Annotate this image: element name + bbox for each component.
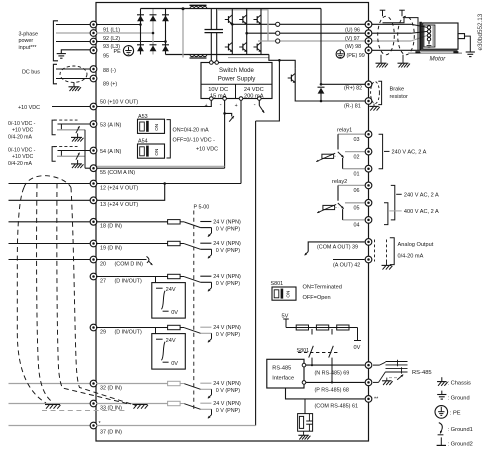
analog out bracket [390, 238, 394, 265]
drive enclosure outline [96, 3, 369, 442]
DC link capacitor C1 lead B [216, 9, 218, 30]
svg-text:24V: 24V [166, 338, 176, 344]
svg-text:Motor: Motor [430, 56, 447, 63]
wire 33 external (gray) [9, 403, 94, 405]
svg-text:50 (+10 V OUT): 50 (+10 V OUT) [100, 100, 138, 106]
NPN/PNP select dashed link [193, 211, 195, 412]
SMPS divider [201, 83, 272, 85]
shield drain wire [383, 18, 419, 51]
relay1 contact [338, 133, 365, 135]
svg-text:0/4-20 mA: 0/4-20 mA [398, 254, 424, 260]
svg-text:(COM D IN): (COM D IN) [115, 261, 144, 267]
digital input 19 resistor+switch [96, 243, 168, 245]
svg-text:(N RS-485) 69: (N RS-485) 69 [315, 370, 350, 376]
terminal 06 [365, 182, 372, 189]
wire L1 to rectifier [96, 24, 141, 26]
wire 55 COM A IN [96, 167, 225, 169]
IGBT Q4 bottom [225, 46, 229, 48]
svg-text:relay1: relay1 [337, 128, 352, 134]
wire 37 internal (gray) [96, 425, 256, 427]
control cable shield dome [24, 176, 71, 188]
terminal 19 [90, 240, 97, 247]
wire +24V rail [240, 100, 242, 183]
terminal 89 [90, 75, 97, 82]
wire PE to motor [369, 49, 420, 51]
wire U to motor [369, 23, 412, 25]
terminal 18 [90, 218, 97, 225]
terminal 32 [90, 380, 97, 387]
svg-text:0/-10 VDC -: 0/-10 VDC - [8, 121, 36, 127]
SMPS input pin A [210, 61, 214, 65]
terminal 05 [365, 199, 372, 206]
svg-text:S801: S801 [297, 348, 310, 354]
wire pot commons to 55 [84, 130, 86, 168]
DC bus bracket [53, 64, 57, 84]
svg-text:0/-10 VDC -: 0/-10 VDC - [8, 147, 36, 153]
ground control shield 2 [133, 404, 148, 406]
terminal 96 [365, 21, 372, 28]
svg-text:05: 05 [354, 206, 360, 212]
motor pin V [427, 30, 430, 33]
RS485 pair upper [373, 364, 380, 366]
motor box [423, 23, 458, 49]
SMPS pin -10V [223, 97, 227, 101]
ground input PE [57, 53, 66, 55]
terminal 55 [90, 165, 97, 172]
junction L3-col3 [164, 40, 167, 43]
RC drop wire [304, 399, 306, 414]
termination resistor R3 [337, 325, 349, 330]
svg-text:18 (D IN): 18 (D IN) [100, 224, 122, 230]
svg-text:Brake: Brake [390, 87, 405, 93]
digital input 29 resistor+switch [96, 327, 168, 329]
wire L3 to rectifier [96, 41, 166, 43]
svg-text:04: 04 [354, 223, 360, 229]
svg-text:01: 01 [354, 172, 360, 178]
svg-text:0/4-20 mA: 0/4-20 mA [8, 135, 32, 141]
svg-text:400 V AC, 2 A: 400 V AC, 2 A [404, 209, 439, 215]
terminal 27 [90, 273, 97, 280]
rectifier column L3 wire [165, 9, 167, 55]
terminal 20 [90, 256, 97, 263]
IGBT Q1 top [225, 19, 229, 21]
wire PE input [61, 50, 93, 54]
termination resistor R1 [296, 325, 308, 330]
terminal 42 [365, 256, 372, 263]
svg-text:ON: ON [286, 291, 291, 298]
svg-text:e30bd552.13: e30bd552.13 [477, 13, 484, 50]
wire 13 external [9, 199, 94, 201]
junction brake diode anode [320, 100, 323, 103]
S801 gang dashed link [298, 352, 338, 354]
svg-text:: PE: : PE [450, 410, 461, 416]
RS485 shield hook [397, 375, 403, 380]
svg-text:PE: PE [114, 49, 122, 55]
svg-text:-: - [254, 102, 256, 108]
shield tick 2 [399, 9, 405, 11]
wire 37 external (gray) [9, 425, 94, 427]
relay1 bracket [379, 134, 383, 169]
svg-text:37 (D IN): 37 (D IN) [100, 429, 122, 435]
SMPS pin +10V [210, 97, 214, 101]
svg-text:OFF=0/-10 VDC -: OFF=0/-10 VDC - [173, 137, 216, 143]
svg-text:0 V (PNP): 0 V (PNP) [216, 226, 240, 232]
wire U phase [232, 23, 368, 25]
ground motor shield 1 [380, 55, 382, 63]
svg-text:0 V (PNP): 0 V (PNP) [216, 408, 240, 414]
wire 54 external [58, 150, 94, 152]
terminal 33 [90, 400, 97, 407]
svg-text:+: + [205, 103, 208, 109]
svg-text:S801: S801 [271, 281, 284, 287]
choke DC+ core bar [190, 4, 207, 6]
relay1 bracket dash [384, 150, 390, 152]
relay2 contact [338, 184, 365, 186]
svg-text:(R-) 81: (R-) 81 [344, 104, 361, 110]
svg-text:(COM A OUT) 39: (COM A OUT) 39 [317, 245, 358, 251]
S801 wire2 to P [331, 358, 333, 383]
terminal 69 [365, 362, 372, 369]
connector circle U [276, 22, 280, 26]
svg-text:ON: ON [154, 124, 159, 131]
wire 20 external [9, 259, 94, 261]
svg-text:**: ** [374, 397, 379, 403]
gray shield dash [42, 410, 128, 412]
connector circle W [276, 39, 280, 43]
legend ground1 symbol [439, 423, 443, 430]
SMPS input pin B [215, 61, 219, 65]
wire L1 input [56, 24, 94, 26]
svg-text:54 (A IN): 54 (A IN) [100, 149, 121, 155]
svg-text:0 V (PNP): 0 V (PNP) [216, 388, 240, 394]
brake DC+ drop wire [320, 9, 322, 85]
DIP switch A53 [138, 119, 165, 133]
terminal 37 [90, 422, 97, 429]
terminal 91 [90, 21, 97, 28]
SMPS box [201, 63, 272, 99]
ground DC bus shield [73, 82, 75, 86]
control cable shield line3 [57, 184, 127, 404]
ground control shield 1 [45, 404, 60, 406]
motor pin W [427, 34, 430, 37]
common rail vertical [255, 121, 257, 426]
inverter leg 1 wire [231, 9, 233, 55]
choke DC- bumps [190, 55, 207, 57]
wire R+ terminal [321, 83, 369, 85]
DIP switch S801 [272, 287, 296, 300]
svg-text:55 (COM A IN): 55 (COM A IN) [100, 170, 135, 176]
motor pin PE [427, 38, 430, 41]
ground brake shield [373, 104, 375, 107]
brake diode lead [320, 93, 322, 101]
rectifier diode D6 bottom [162, 44, 169, 46]
motor PE arrow [428, 41, 430, 45]
terminal 81 [365, 98, 372, 105]
rectifier diode D2 top [150, 14, 157, 16]
svg-text:0V: 0V [354, 345, 361, 351]
control cable shield line4 [71, 188, 136, 406]
svg-text:OFF=Open: OFF=Open [303, 295, 331, 301]
svg-text:power: power [19, 38, 34, 44]
A53 bracket [167, 120, 171, 158]
svg-text:95: 95 [103, 54, 109, 60]
DC+ extension to brake [261, 8, 321, 10]
terminal 13 [90, 197, 97, 204]
switch blade 24V- [258, 100, 260, 105]
relay2 inner bracket dash [389, 210, 401, 212]
svg-text:20: 20 [100, 261, 106, 267]
svg-text:32 (D IN): 32 (D IN) [100, 385, 122, 391]
svg-text:: Ground2: : Ground2 [448, 442, 473, 448]
connector circle V [276, 31, 280, 35]
rectifier diode D5 bottom [150, 44, 157, 46]
wire W phase (gray) [258, 40, 369, 42]
svg-text:(W) 98: (W) 98 [345, 44, 361, 50]
IGBT Q3 top [254, 19, 258, 21]
motor cable shield ellipse 2 [398, 16, 415, 55]
IGBT Q2 top [239, 19, 243, 21]
RS485 twist ticks [397, 360, 399, 367]
svg-text:02: 02 [354, 154, 360, 160]
svg-text:24 V (NPN): 24 V (NPN) [213, 241, 241, 247]
svg-text:Analog Output: Analog Output [398, 242, 434, 248]
wire N RS-485 [306, 364, 365, 366]
terminal 54 [90, 147, 97, 154]
svg-text:Switch Mode: Switch Mode [219, 67, 254, 74]
SMPS pin +24V [239, 97, 243, 101]
wire L2 to rectifier (gray) [96, 32, 153, 34]
terminal 02 [365, 148, 372, 155]
terminal 97 [365, 30, 372, 37]
svg-text:(A OUT) 42: (A OUT) 42 [333, 262, 360, 268]
terminal 82 [365, 81, 372, 88]
DC link capacitor C1 plates [205, 29, 224, 31]
rectifier column L2 wire [152, 9, 154, 55]
wire 27 to pulse box [155, 277, 157, 283]
wire 88 (-) [56, 68, 94, 70]
ground motor frame [466, 51, 475, 53]
wire 18 external [9, 221, 94, 223]
svg-text:0/4-20 mA: 0/4-20 mA [8, 161, 32, 167]
legend ground symbol [441, 391, 443, 395]
DC- bus [166, 54, 269, 56]
wire W to motor (gray) [369, 40, 412, 42]
svg-text:(D IN/OUT): (D IN/OUT) [115, 278, 142, 284]
svg-text:29: 29 [100, 329, 106, 335]
IGBT Q6 bottom [254, 46, 258, 48]
termination rail [286, 327, 358, 329]
PE symbol right [336, 50, 344, 58]
svg-text:(PE) 99: (PE) 99 [347, 53, 365, 59]
svg-text:0 V (PNP): 0 V (PNP) [216, 332, 240, 338]
brake emitter wire [295, 88, 368, 101]
wire 32 external (gray) [9, 383, 94, 385]
svg-text:Power Supply: Power Supply [218, 76, 257, 83]
terminal 50 [90, 103, 97, 110]
wire 19 external [9, 243, 94, 245]
wire L2 input (gray) [56, 32, 94, 34]
choke DC+ bumps [190, 6, 207, 8]
svg-text:24 V (NPN): 24 V (NPN) [213, 325, 241, 331]
svg-text:-: - [220, 102, 222, 108]
wire V to motor [369, 32, 412, 34]
COM D IN hook [147, 256, 149, 263]
wire P RS-485 [306, 381, 365, 383]
svg-text:: Chassis: : Chassis [448, 380, 472, 386]
svg-text:Interface: Interface [272, 376, 294, 382]
ground analog out [386, 262, 388, 266]
svg-text:240 V AC, 2 A: 240 V AC, 2 A [392, 150, 427, 156]
svg-text:24 V (NPN): 24 V (NPN) [213, 274, 241, 280]
terminal 12 [90, 180, 97, 187]
RS485 box pin N [302, 363, 306, 367]
svg-text:P 5-00: P 5-00 [194, 204, 210, 210]
wire 13 (+24V OUT) [96, 184, 165, 201]
gray underline A-in section [96, 165, 225, 167]
5V stub [285, 319, 287, 328]
svg-text:RS-485: RS-485 [272, 366, 291, 372]
wire COM RS-485 [286, 388, 365, 399]
legend PE symbol [435, 406, 448, 419]
S801 switch blade 2 [331, 329, 333, 335]
svg-text:24 V (NPN): 24 V (NPN) [213, 381, 241, 387]
svg-text:resistor: resistor [390, 94, 408, 100]
relay2 outer bracket dash [396, 193, 402, 195]
svg-text:(P RS-485) 68: (P RS-485) 68 [315, 388, 349, 394]
terminal 39 [365, 239, 372, 246]
svg-text:(R+) 82: (R+) 82 [344, 85, 362, 91]
motor inner column [424, 25, 435, 47]
S801 wire1 to N [311, 358, 313, 366]
digital input 32 resistor+switch [96, 383, 168, 385]
wire DC- to brake [269, 55, 295, 69]
svg-text:24V: 24V [166, 287, 176, 293]
svg-text:0 V (PNP): 0 V (PNP) [216, 248, 240, 254]
RS485 shield gray dash [389, 377, 399, 379]
wire 20 internal [96, 259, 147, 261]
terminal 04 [365, 217, 372, 224]
DC bus shield ellipse [60, 66, 87, 82]
brake resistor bracket [378, 81, 381, 104]
PE symbol left [123, 46, 133, 56]
wire cap to SMPS - [216, 33, 218, 61]
rectifier diode D3 top [162, 14, 169, 16]
COM A OUT arrow [305, 252, 309, 256]
relay1 coil link [334, 155, 338, 157]
switch tap 55 branch [225, 113, 232, 116]
rail branch corner [256, 60, 280, 121]
legend chassis symbol [441, 377, 443, 381]
svg-text:12 (+24 V OUT): 12 (+24 V OUT) [100, 185, 138, 191]
terminal 68 [365, 379, 372, 386]
terminal 53 [90, 121, 97, 128]
RS485 box pin P [302, 381, 306, 385]
junction switch tap 55 [223, 112, 226, 115]
wire 29 to pulse box [155, 328, 157, 334]
inverter leg 2 wire [246, 9, 248, 55]
switch blade 55 [229, 116, 234, 122]
potentiometer input 53 [52, 120, 56, 135]
DC+ bus [141, 8, 262, 10]
svg-text:+10 VDC: +10 VDC [12, 154, 33, 160]
terminal 29 [90, 324, 97, 331]
wire 53 external [58, 123, 94, 125]
svg-text:+10 VDC: +10 VDC [12, 127, 33, 133]
relay2 inner bracket [384, 203, 388, 225]
motor terminal plate [419, 22, 422, 51]
svg-text:24 V (NPN): 24 V (NPN) [213, 219, 241, 225]
terminal 92 [90, 30, 97, 37]
digital input 18 resistor+switch [96, 221, 168, 223]
terminal 93 [90, 38, 97, 45]
RC capacitor [306, 420, 312, 422]
junction R+ diode [320, 83, 323, 86]
svg-text:10V DC: 10V DC [208, 87, 228, 93]
wire cap to SMPS + [210, 33, 212, 61]
wire 12 (+24V OUT) [96, 183, 241, 185]
svg-text:0 V (PNP): 0 V (PNP) [216, 281, 240, 287]
junction V tap [245, 32, 248, 35]
brake cable shield dashes [371, 82, 380, 104]
wire V phase [247, 32, 369, 34]
control cable shield line1 [17, 188, 46, 404]
choke DC- core bar [190, 57, 207, 59]
rectifier diode D1 top [137, 14, 144, 16]
svg-text:03: 03 [354, 137, 360, 143]
analog out shield dashes [374, 240, 376, 262]
wire 89 (+) [56, 78, 94, 80]
svg-text:240 V AC, 2 A: 240 V AC, 2 A [404, 192, 439, 198]
rectifier column L1 wire [140, 9, 142, 55]
wire 12 external [9, 183, 94, 185]
junction U tap [231, 23, 234, 26]
IGBT Q7 brake [294, 69, 296, 88]
DIP switch A54 [138, 144, 165, 158]
svg-text:relay2: relay2 [332, 179, 347, 185]
motor frame ground wire [465, 36, 471, 52]
motor shaft [458, 34, 465, 39]
IGBT Q5 bottom [239, 46, 243, 48]
svg-text:+: + [235, 103, 238, 109]
DC- bus gray overlay [228, 57, 269, 59]
svg-text:88 (-): 88 (-) [103, 68, 116, 74]
svg-text:: Ground: : Ground [448, 395, 470, 401]
relay2 outer bracket [391, 185, 395, 220]
svg-text:+10 VDC: +10 VDC [18, 105, 40, 111]
legend ground2 symbol [440, 437, 442, 445]
wire COM A OUT [308, 242, 364, 252]
brake diode D7 [318, 86, 325, 88]
junction dot bus-183 [182, 7, 185, 10]
S801 switch blade 1 [311, 329, 313, 335]
shield tick 1 [380, 9, 386, 11]
relay2 coil [323, 205, 335, 209]
junction L1-col1 [139, 23, 142, 26]
svg-text:27: 27 [100, 278, 106, 284]
motor pin U [427, 26, 430, 29]
terminal 01 [365, 165, 372, 172]
terminal 88 [90, 66, 97, 73]
svg-text:input***: input*** [19, 45, 38, 51]
junction L2-col2 [152, 32, 155, 35]
svg-text:24 V (NPN): 24 V (NPN) [213, 401, 241, 407]
control cable shield line2 [37, 184, 53, 403]
RC termination box [298, 414, 313, 432]
pulse output box 29 [152, 334, 186, 370]
terminal 99 [365, 47, 372, 54]
DC link capacitor C1 lead A [210, 9, 212, 30]
svg-text:3-phase: 3-phase [19, 31, 38, 37]
